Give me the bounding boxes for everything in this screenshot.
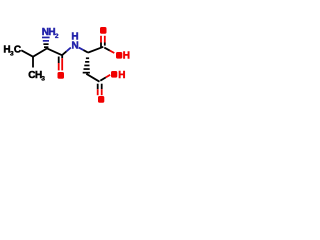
bond top carboxyl C to OH black half — [104, 48, 110, 51]
amide C=O double bond line 2 red bottom — [58, 63, 60, 70]
label amide O — [58, 72, 65, 79]
bond H3C to isopropyl CH — [21, 50, 33, 56]
hashed wedge Val Calpha to NH2 — [42, 37, 50, 42]
bond Asp Calpha to top carboxyl C — [88, 47, 103, 53]
svg-text:H: H — [123, 51, 130, 62]
svg-text:C: C — [14, 45, 21, 56]
amide C=O double bond line 1 black top — [61, 55, 63, 58]
bond N to Asp Calpha blue half — [79, 48, 84, 51]
label top OH — [116, 52, 122, 59]
bottom carboxyl C=O line 2 red bottom — [101, 89, 103, 95]
bond N to Asp Calpha black half — [83, 50, 88, 53]
bond bottom carboxyl C to OH red half — [106, 75, 110, 78]
top carboxyl C=O line 2 black bottom — [104, 43, 106, 46]
bond top carboxyl C to OH red half — [110, 51, 115, 53]
label bottom OH — [111, 71, 117, 78]
bond Val Calpha to amide C — [47, 48, 62, 55]
bottom carboxyl C=O line 1 black top — [97, 84, 99, 90]
bottom carboxyl C=O line 2 black top — [101, 84, 103, 90]
svg-text:N: N — [72, 41, 79, 52]
svg-text:3: 3 — [41, 75, 45, 82]
amide C=O double bond line 1 red bottom — [61, 58, 63, 70]
bond isopropyl CH to Val Calpha — [33, 48, 47, 56]
amide C=O double bond line 2 black top — [58, 57, 60, 64]
bond isopropyl CH down to CH3 — [32, 57, 34, 68]
bond Asp CH2 to bottom carboxyl C — [86, 74, 99, 82]
bond amide C to N black half — [62, 51, 67, 55]
top carboxyl C=O line 2 red top — [104, 36, 106, 43]
label bottom carboxyl O — [98, 96, 104, 103]
bond bottom carboxyl C to OH black half — [100, 77, 106, 80]
hashed wedge Asp Calpha to CH2 — [83, 57, 90, 73]
label top carboxyl O — [100, 27, 107, 34]
svg-text:2: 2 — [55, 33, 59, 40]
svg-text:H: H — [118, 70, 125, 81]
top carboxyl C=O line 1 red top — [100, 36, 102, 43]
bottom carboxyl C=O line 1 red bottom — [97, 89, 99, 95]
bond amide C to N blue half — [67, 48, 71, 52]
top carboxyl C=O line 1 black bottom — [100, 43, 102, 48]
